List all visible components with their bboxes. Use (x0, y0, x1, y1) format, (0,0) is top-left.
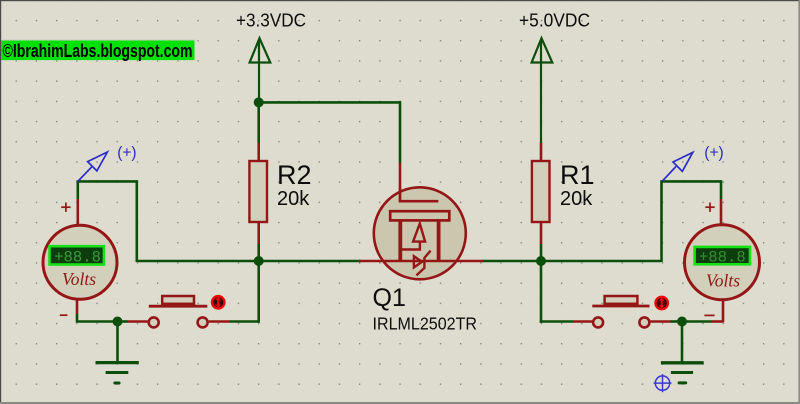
transistor Q1 (MOSFET body) (374, 187, 466, 279)
svg-text:R1: R1 (560, 160, 595, 190)
probe arrow left (+) (78, 152, 108, 181)
wire right ground node to voltmeter (682, 320, 723, 323)
wire 5V rail down to R1 (540, 143, 543, 162)
wire main bus left (3.3V side) (137, 260, 361, 263)
svg-text:Volts: Volts (706, 271, 740, 291)
power symbol +3.3VDC (250, 38, 271, 103)
pin + right voltmeter (720, 199, 723, 226)
wire 3.3V rail to Q1 gate (258, 101, 401, 190)
wire left voltmeter to ground node (77, 314, 118, 322)
svg-text:+88.8: +88.8 (54, 249, 101, 267)
svg-text:+88.8: +88.8 (699, 248, 746, 266)
wire right voltmeter branch (662, 180, 722, 262)
wire left button to bus riser (209, 261, 259, 323)
voltmeter right reading +88.8 (699, 248, 746, 266)
svg-text:20k: 20k (560, 188, 593, 210)
svg-text:Volts: Volts (62, 269, 96, 289)
wire R2 bottom to bus (257, 244, 260, 261)
push button left (149, 296, 208, 327)
svg-text:©IbrahimLabs.blogspot.com: ©IbrahimLabs.blogspot.com (3, 40, 193, 61)
wire left button left stub (118, 320, 148, 323)
ground left (96, 322, 139, 384)
voltmeter left display (50, 246, 104, 264)
pin - right voltmeter (722, 300, 725, 323)
value IRLML2502TR (373, 313, 478, 333)
watermark label IbrahimLabs (1, 39, 195, 61)
svg-text:+5.0VDC: +5.0VDC (519, 10, 590, 31)
pin + left voltmeter (77, 199, 80, 226)
pin - left voltmeter (76, 299, 79, 314)
Q1 bulk arrow (399, 224, 425, 250)
resistor R1 (532, 161, 550, 244)
ground right (661, 322, 704, 383)
svg-text:(+): (+) (704, 144, 723, 161)
node junction 3.3V rail (254, 97, 264, 107)
node junction left ground (113, 317, 123, 327)
power label +3.3VDC (236, 10, 306, 31)
svg-text:20k: 20k (277, 188, 310, 210)
Q1 gate lead (399, 188, 439, 201)
node junction R2/bus (254, 256, 264, 266)
Q1 drain/source legs (400, 222, 438, 262)
wire bus through Q1 (red pins) (359, 260, 484, 263)
origin marker (blue crosshair) (654, 374, 672, 392)
svg-text:IRLML2502TR: IRLML2502TR (373, 313, 478, 333)
label Q1 (373, 284, 406, 312)
label + (right voltmeter) (705, 203, 714, 212)
wire 3.3V rail down to R2 (257, 103, 260, 162)
voltmeter left (instrument) (43, 225, 117, 299)
Q1 channel bar (390, 211, 449, 220)
wire left voltmeter branch (78, 180, 137, 262)
label (+) right (704, 144, 723, 161)
wire main bus right (5V side) (482, 260, 662, 263)
node junction right ground (677, 317, 687, 327)
label - (right voltmeter) (704, 314, 714, 316)
button right actuator indicator (654, 296, 669, 311)
node junction R1/bus (536, 256, 546, 266)
label R1 (560, 160, 595, 190)
push button right (592, 296, 649, 327)
power symbol +5.0VDC (532, 38, 553, 143)
wire R1 bottom to bus (540, 244, 543, 261)
label (+) left (117, 144, 136, 161)
svg-text:Q1: Q1 (373, 284, 406, 312)
svg-text:(+): (+) (117, 144, 136, 161)
value 20k (R1) (560, 188, 593, 210)
voltmeter right display (695, 247, 750, 264)
label R2 (277, 160, 312, 190)
voltmeter right (instrument) (685, 225, 760, 300)
voltmeter left reading +88.8 (54, 249, 101, 267)
voltmeter left label Volts (62, 269, 96, 289)
label - (left voltmeter) (60, 314, 68, 316)
probe arrow right (+) (662, 152, 693, 181)
wire right bus riser to button (540, 261, 592, 323)
svg-text:+3.3VDC: +3.3VDC (236, 10, 306, 31)
label + (left voltmeter) (61, 203, 70, 212)
value 20k (R2) (277, 188, 310, 210)
resistor R2 (249, 161, 267, 244)
power label +5.0VDC (519, 10, 590, 31)
wire right button to ground node (650, 320, 682, 323)
button left actuator indicator (211, 295, 226, 310)
Q1 body diode (414, 251, 431, 276)
voltmeter right label Volts (706, 271, 740, 291)
svg-text:R2: R2 (277, 160, 312, 190)
